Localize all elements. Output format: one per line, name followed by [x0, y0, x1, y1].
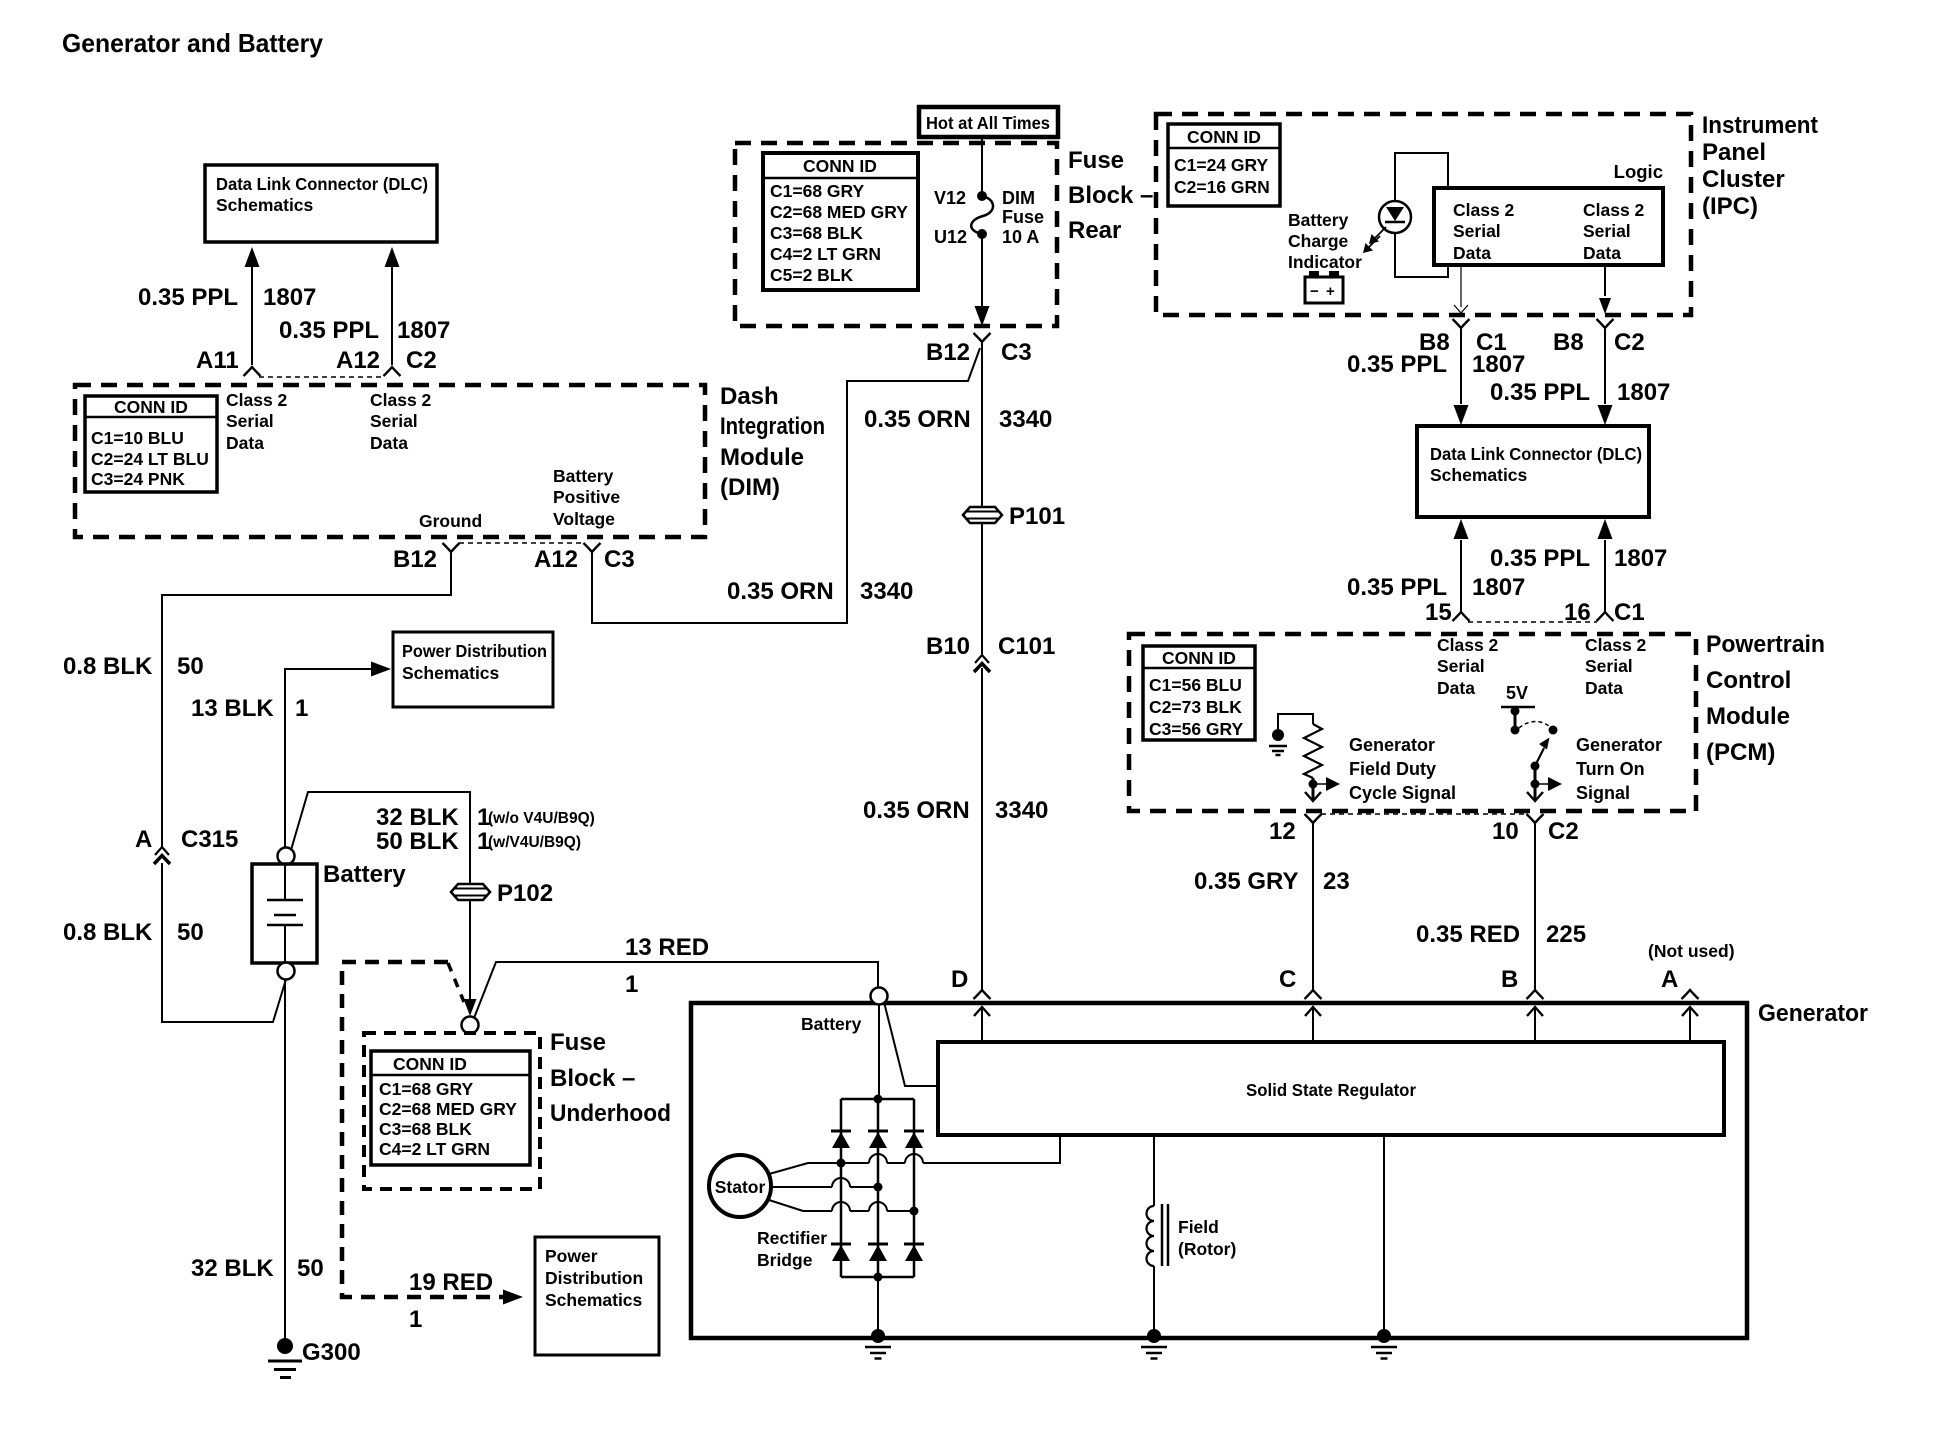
bridge diodes top row [831, 1130, 851, 1133]
svg-text:C2: C2 [406, 347, 437, 374]
wire 0.8 BLK 50 from DIM B12 to battery negative [162, 553, 451, 848]
module box Instrument Panel Cluster (IPC) dashed [1156, 114, 1691, 315]
terminal A arrow [1689, 1007, 1691, 1042]
svg-text:+: + [1326, 283, 1335, 300]
svg-text:3340: 3340 [995, 797, 1048, 824]
wire 13 BLK 1 from battery positive to Power Distribution [285, 669, 372, 848]
ground (field) [1147, 1329, 1161, 1343]
wire loop around indicator [1395, 153, 1448, 201]
field ground wire [1153, 1266, 1155, 1336]
svg-text:Signal: Signal [1576, 783, 1630, 803]
svg-text:1: 1 [295, 695, 308, 722]
svg-text:B: B [1501, 966, 1518, 993]
svg-text:Module: Module [1706, 703, 1790, 730]
IPC CONN ID table [1168, 124, 1280, 206]
bridge diodes bottom row [831, 1243, 851, 1246]
svg-text:Battery: Battery [1288, 210, 1349, 230]
svg-text:0.8 BLK: 0.8 BLK [63, 919, 153, 946]
svg-text:19 RED: 19 RED [409, 1269, 493, 1296]
svg-text:Schematics: Schematics [545, 1290, 643, 1310]
svg-text:13 BLK: 13 BLK [191, 695, 274, 722]
svg-text:Ground: Ground [419, 511, 482, 531]
svg-text:Serial: Serial [226, 411, 274, 431]
svg-text:(Rotor): (Rotor) [1178, 1239, 1236, 1259]
svg-text:0.35 PPL: 0.35 PPL [279, 317, 379, 344]
IPC wire to B8/C2 [1604, 265, 1606, 296]
svg-text:50: 50 [177, 919, 204, 946]
svg-text:Fuse: Fuse [1002, 207, 1044, 227]
wire 0.35 ORN 3340 main vertical [981, 343, 983, 506]
svg-text:Turn On: Turn On [1576, 759, 1645, 779]
switch arm generator turn on [1535, 738, 1550, 767]
svg-text:Control: Control [1706, 667, 1791, 694]
svg-text:C3: C3 [1001, 339, 1032, 366]
svg-text:Class 2: Class 2 [1437, 635, 1499, 655]
svg-text:(PCM): (PCM) [1706, 739, 1775, 766]
svg-text:1807: 1807 [397, 317, 450, 344]
svg-text:50: 50 [297, 1255, 324, 1282]
svg-text:Integration: Integration [720, 413, 825, 440]
svg-text:C3=24 PNK: C3=24 PNK [91, 469, 185, 489]
svg-text:0.35 PPL: 0.35 PPL [1490, 379, 1590, 406]
svg-text:1: 1 [625, 971, 638, 998]
connector B8/C1 [1453, 319, 1470, 328]
generator battery terminal circle [871, 988, 888, 1005]
svg-text:B12: B12 [926, 339, 970, 366]
terminal D arrow [981, 1007, 983, 1042]
svg-text:C3=68 BLK: C3=68 BLK [379, 1119, 472, 1139]
svg-text:Block –: Block – [550, 1065, 635, 1092]
svg-text:B8: B8 [1553, 329, 1584, 356]
wire from Hot at All Times into fuse [981, 137, 983, 195]
wire 0.35 PPL 1807 from PCM 15 [1460, 540, 1462, 612]
svg-text:Stator: Stator [715, 1177, 766, 1197]
svg-text:C101: C101 [998, 633, 1055, 660]
module box Powertrain Control Module (PCM) dashed [1129, 634, 1696, 811]
svg-text:3340: 3340 [999, 406, 1052, 433]
box Data Link Connector (DLC) Schematics (top left) [205, 165, 437, 242]
svg-text:1807: 1807 [263, 284, 316, 311]
svg-text:Serial: Serial [1583, 221, 1631, 241]
svg-text:C1=10 BLU: C1=10 BLU [91, 428, 184, 448]
svg-text:Schematics: Schematics [402, 663, 500, 683]
svg-text:Class 2: Class 2 [1585, 635, 1647, 655]
svg-text:Field Duty: Field Duty [1349, 759, 1436, 779]
svg-text:Hot at All Times: Hot at All Times [926, 113, 1050, 133]
svg-text:A12: A12 [534, 546, 578, 573]
svg-text:10 A: 10 A [1002, 227, 1039, 247]
svg-text:16: 16 [1564, 599, 1591, 626]
svg-text:0.35 RED: 0.35 RED [1416, 921, 1520, 948]
connector pair dashed line 12-10 [1321, 813, 1527, 815]
box Power Distribution Schematics (upper) [393, 632, 553, 707]
indicator lamp LED [1379, 201, 1411, 233]
svg-text:Generator: Generator [1576, 735, 1662, 755]
svg-text:Bridge: Bridge [757, 1250, 813, 1270]
svg-text:C2=73 BLK: C2=73 BLK [1149, 697, 1242, 717]
svg-text:C: C [1279, 966, 1296, 993]
svg-text:Rear: Rear [1068, 217, 1121, 244]
svg-text:12: 12 [1269, 818, 1296, 845]
svg-text:Logic: Logic [1614, 161, 1663, 182]
connector B8/C2 [1597, 319, 1614, 328]
svg-text:C315: C315 [181, 826, 238, 853]
svg-text:A12: A12 [336, 347, 380, 374]
battery negative terminal [278, 963, 295, 980]
fuse block rear CONN ID table [763, 153, 918, 290]
svg-text:B12: B12 [393, 546, 437, 573]
ground (bridge) [871, 1329, 885, 1343]
wire battery terminal to regulator [884, 1002, 938, 1086]
svg-text:Battery: Battery [801, 1014, 862, 1034]
resistor R field duty [1278, 714, 1322, 778]
svg-text:C2: C2 [1614, 329, 1645, 356]
svg-text:Serial: Serial [1437, 656, 1485, 676]
field rotor wire [1153, 1135, 1155, 1206]
svg-text:Voltage: Voltage [553, 509, 615, 529]
svg-text:G300: G300 [302, 1339, 361, 1366]
stator phase wire 1 [769, 1135, 1060, 1174]
svg-text:(w/V4U/B9Q): (w/V4U/B9Q) [488, 834, 581, 851]
svg-text:Schematics: Schematics [216, 195, 314, 215]
connector pair dashed line 15-16 [1468, 621, 1597, 623]
wire 13 RED 1 fuse block to generator battery terminal [474, 962, 878, 1018]
svg-text:Rectifier: Rectifier [757, 1228, 827, 1248]
svg-text:CONN ID: CONN ID [1187, 127, 1261, 147]
svg-text:P102: P102 [497, 880, 553, 907]
wire A11 0.35 PPL 1807 to DLC [244, 247, 261, 376]
box Power Distribution Schematics (lower) [535, 1237, 659, 1355]
svg-text:1807: 1807 [1472, 351, 1525, 378]
svg-text:1807: 1807 [1472, 574, 1525, 601]
svg-text:32 BLK: 32 BLK [191, 1255, 274, 1282]
wire 32 BLK / 50 BLK from battery positive to fuse block [291, 792, 470, 883]
svg-text:C2=24 LT BLU: C2=24 LT BLU [91, 449, 209, 469]
svg-text:C1=56 BLU: C1=56 BLU [1149, 675, 1242, 695]
field coil (rotor) [1147, 1204, 1169, 1266]
svg-text:Powertrain: Powertrain [1706, 631, 1825, 658]
svg-text:Underhood: Underhood [550, 1100, 671, 1127]
svg-text:C5=2 BLK: C5=2 BLK [770, 265, 854, 285]
svg-text:Solid State Regulator: Solid State Regulator [1246, 1080, 1416, 1100]
svg-text:(w/o V4U/B9Q): (w/o V4U/B9Q) [488, 810, 595, 827]
svg-text:0.35 ORN: 0.35 ORN [863, 797, 970, 824]
ground G300 [268, 1338, 302, 1378]
switch dashed arc [1519, 721, 1549, 728]
wire A12 0.35 PPL 1807 to DLC [384, 247, 401, 376]
connector pair dashed line B12-A12 [459, 542, 584, 544]
svg-text:Cluster: Cluster [1702, 166, 1785, 193]
svg-text:Serial: Serial [1585, 656, 1633, 676]
connector B12/C3 below fuse block rear [974, 333, 991, 342]
fuse block underhood CONN ID table [371, 1051, 530, 1165]
svg-text:C1: C1 [1614, 599, 1645, 626]
svg-text:Fuse: Fuse [1068, 147, 1124, 174]
svg-text:Class 2: Class 2 [226, 390, 288, 410]
svg-text:Generator: Generator [1758, 1000, 1868, 1027]
module outline Fuse Block - Underhood (dashed) [342, 962, 505, 1297]
svg-text:0.8 BLK: 0.8 BLK [63, 653, 153, 680]
svg-text:Class 2: Class 2 [1453, 200, 1515, 220]
box Data Link Connector (DLC) Schematics (right) [1417, 426, 1649, 517]
svg-text:C2: C2 [1548, 818, 1579, 845]
regulator ground wire [1383, 1135, 1385, 1336]
svg-text:Data: Data [1583, 243, 1621, 263]
module box Fuse Block - Rear (dashed) [735, 143, 1057, 326]
svg-text:Cycle Signal: Cycle Signal [1349, 783, 1456, 803]
svg-text:Charge: Charge [1288, 231, 1349, 251]
svg-text:U12: U12 [934, 227, 967, 247]
svg-text:C4=2 LT GRN: C4=2 LT GRN [379, 1139, 490, 1159]
svg-text:Positive: Positive [553, 487, 620, 507]
svg-text:Instrument: Instrument [1702, 112, 1818, 139]
svg-text:50: 50 [177, 653, 204, 680]
svg-text:C4=2 LT GRN: C4=2 LT GRN [770, 244, 881, 264]
svg-text:0.35 PPL: 0.35 PPL [138, 284, 238, 311]
wire 0.35 RED 225 to generator B [1534, 824, 1536, 990]
svg-text:0.35 PPL: 0.35 PPL [1347, 351, 1447, 378]
LED light arrows [1363, 227, 1386, 253]
ground (regulator) [1377, 1329, 1391, 1343]
fuse DIM Fuse 10 A [971, 191, 993, 239]
terminal circle fuse block underhood [462, 1017, 479, 1034]
module box Generator [691, 1003, 1747, 1338]
svg-text:1807: 1807 [1617, 379, 1670, 406]
connector 12 [1305, 814, 1322, 823]
svg-text:Indicator: Indicator [1288, 252, 1362, 272]
wire 0.35 PPL 1807 (C2) to DLC [1604, 329, 1606, 404]
svg-text:C3=56 GRY: C3=56 GRY [1149, 719, 1244, 739]
connector A12/C3 at DIM bottom [584, 543, 601, 552]
IPC wire to B8/C1 (thin) [1460, 265, 1462, 307]
terminal B arrow [1534, 1007, 1536, 1042]
svg-text:Data Link Connector (DLC): Data Link Connector (DLC) [216, 174, 428, 194]
svg-text:3340: 3340 [860, 578, 913, 605]
svg-text:B10: B10 [926, 633, 970, 660]
inline connector B10/C101 [975, 655, 989, 663]
fuse block underhood CONN ID dashed box [364, 1033, 540, 1189]
svg-text:5V: 5V [1506, 683, 1528, 703]
wire switch to pin 10 [1531, 762, 1540, 771]
svg-text:13 RED: 13 RED [625, 934, 709, 961]
svg-text:(DIM): (DIM) [720, 474, 780, 501]
svg-text:A: A [135, 826, 152, 853]
svg-text:0.35 PPL: 0.35 PPL [1347, 574, 1447, 601]
module box Dash Integration Module (DIM) [75, 385, 705, 537]
svg-text:Data: Data [1585, 678, 1623, 698]
svg-text:C1=68 GRY: C1=68 GRY [379, 1079, 474, 1099]
svg-text:50 BLK: 50 BLK [376, 828, 459, 855]
svg-text:A: A [1661, 966, 1678, 993]
5V supply [1501, 683, 1535, 735]
svg-text:C1=68 GRY: C1=68 GRY [770, 181, 865, 201]
stator phase wire 3 [769, 1200, 919, 1216]
DIM CONN ID table [85, 396, 217, 492]
svg-text:0.35 GRY: 0.35 GRY [1194, 868, 1299, 895]
svg-text:C3: C3 [604, 546, 635, 573]
battery B1 [252, 864, 317, 963]
svg-text:Data Link Connector (DLC): Data Link Connector (DLC) [1430, 444, 1642, 464]
IPC Logic box [1434, 188, 1663, 265]
svg-text:Serial: Serial [1453, 221, 1501, 241]
switch contact [1549, 726, 1558, 735]
wire 0.35 PPL 1807 from PCM 16 [1604, 540, 1606, 612]
inline connector C315 [155, 847, 169, 855]
svg-text:Dash: Dash [720, 383, 779, 410]
svg-text:CONN ID: CONN ID [114, 397, 188, 417]
wire battery terminal into bridge [878, 1004, 880, 1099]
svg-text:Distribution: Distribution [545, 1268, 643, 1288]
svg-text:Panel: Panel [1702, 139, 1766, 166]
connector 10/C2 [1527, 814, 1544, 823]
stator phase wire 2 [771, 1178, 883, 1192]
svg-text:C2=68 MED GRY: C2=68 MED GRY [379, 1099, 517, 1119]
stator [709, 1155, 771, 1217]
connector B12 at DIM bottom [443, 543, 460, 552]
rectifier bridge rails [841, 1095, 914, 1282]
svg-text:Fuse: Fuse [550, 1029, 606, 1056]
terminal C arrow [1312, 1007, 1314, 1042]
PCM CONN ID table [1143, 646, 1255, 740]
svg-text:0.35 PPL: 0.35 PPL [1490, 545, 1590, 572]
inline connector P101 [963, 507, 1002, 523]
connector A (not used) [1682, 990, 1699, 999]
bridge ground wire [877, 1277, 879, 1336]
PCM internal ground [1269, 729, 1287, 755]
svg-text:C2=16 GRN: C2=16 GRN [1174, 177, 1270, 197]
svg-text:Generator: Generator [1349, 735, 1435, 755]
wire resistor to pin 12 [1312, 778, 1315, 800]
svg-text:V12: V12 [934, 188, 966, 208]
wire 32 BLK 50 battery negative to G300 [284, 979, 286, 1338]
svg-text:C2=68 MED GRY: C2=68 MED GRY [770, 202, 908, 222]
svg-text:A11: A11 [196, 347, 239, 374]
battery icon [1305, 271, 1343, 303]
svg-text:(Not used): (Not used) [1648, 941, 1735, 961]
svg-text:10: 10 [1492, 818, 1519, 845]
wire 0.35 PPL 1807 (C1) to DLC [1460, 329, 1462, 404]
svg-text:Block –: Block – [1068, 182, 1153, 209]
svg-text:23: 23 [1323, 868, 1350, 895]
svg-text:C3=68 BLK: C3=68 BLK [770, 223, 863, 243]
svg-text:Battery: Battery [553, 466, 614, 486]
svg-text:Data: Data [1437, 678, 1475, 698]
svg-text:32 BLK: 32 BLK [376, 804, 459, 831]
svg-text:Power Distribution: Power Distribution [402, 641, 547, 661]
box Hot at All Times [919, 107, 1058, 137]
svg-text:CONN ID: CONN ID [393, 1054, 467, 1074]
svg-text:Power: Power [545, 1246, 598, 1266]
svg-text:0.35 ORN: 0.35 ORN [727, 578, 834, 605]
svg-text:0.35 ORN: 0.35 ORN [864, 406, 971, 433]
connector pair dashed line A11-A12 [259, 376, 385, 378]
svg-text:CONN ID: CONN ID [803, 156, 877, 176]
branch wire 0.35 ORN 3340 to DIM C3 [592, 348, 980, 623]
svg-text:Schematics: Schematics [1430, 465, 1528, 485]
svg-text:Class 2: Class 2 [1583, 200, 1645, 220]
svg-text:D: D [951, 966, 968, 993]
svg-text:15: 15 [1425, 599, 1452, 626]
svg-text:Data: Data [1453, 243, 1491, 263]
svg-text:CONN ID: CONN ID [1162, 648, 1236, 668]
svg-text:Serial: Serial [370, 411, 418, 431]
svg-text:Data: Data [226, 433, 264, 453]
wire fuse to B12/C3 [981, 234, 983, 308]
svg-text:DIM: DIM [1002, 188, 1035, 208]
svg-text:1: 1 [409, 1306, 422, 1333]
svg-text:Generator and Battery: Generator and Battery [62, 28, 324, 58]
wire 0.35 GRY 23 to generator C [1312, 824, 1314, 990]
battery positive terminal [278, 848, 295, 865]
svg-text:Data: Data [370, 433, 408, 453]
svg-text:225: 225 [1546, 921, 1586, 948]
svg-text:P101: P101 [1009, 503, 1065, 530]
svg-text:Class 2: Class 2 [370, 390, 432, 410]
svg-text:Module: Module [720, 444, 804, 471]
svg-text:C1=24 GRY: C1=24 GRY [1174, 155, 1269, 175]
inline connector P102 [451, 884, 490, 900]
svg-text:(IPC): (IPC) [1702, 193, 1758, 220]
svg-text:Field: Field [1178, 1217, 1219, 1237]
svg-text:Battery: Battery [323, 861, 406, 888]
svg-text:−: − [1310, 283, 1319, 300]
box Solid State Regulator [938, 1042, 1724, 1135]
svg-text:1807: 1807 [1614, 545, 1667, 572]
